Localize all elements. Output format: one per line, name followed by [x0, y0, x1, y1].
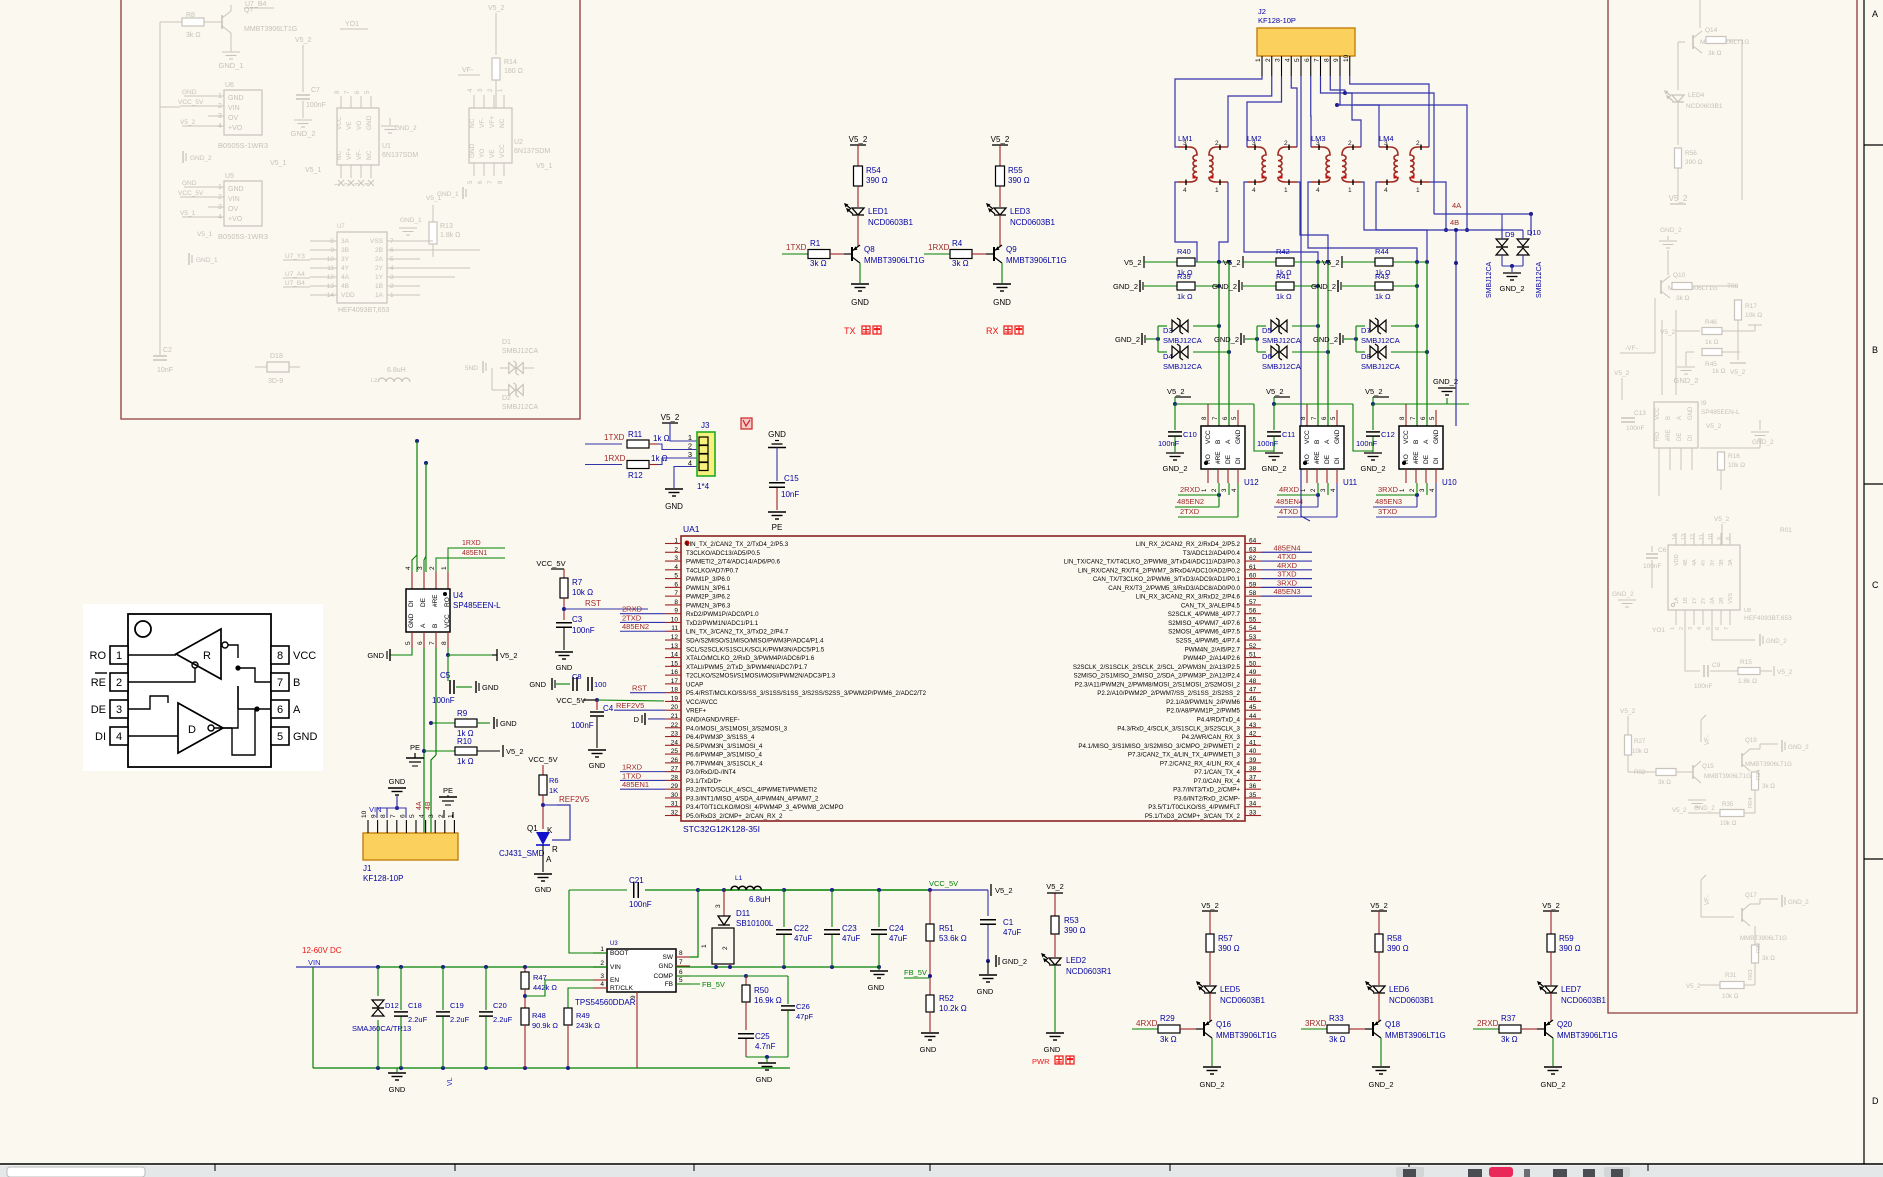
svg-text:10nF: 10nF — [781, 490, 799, 499]
svg-text:LED7: LED7 — [1561, 985, 1582, 994]
svg-text:P6.4/PWM3P_3/S1SS_4: P6.4/PWM3P_3/S1SS_4 — [686, 734, 755, 741]
svg-text:LED2: LED2 — [1066, 956, 1087, 965]
svg-text:PWM1P_3/P6.0: PWM1P_3/P6.0 — [686, 576, 731, 583]
svg-text:V5_2: V5_2 — [1542, 901, 1560, 910]
svg-text:GND_2: GND_2 — [1311, 282, 1336, 291]
svg-text:P3.3/INT1/MISO_4/SDA_4/PWM4N_4: P3.3/INT1/MISO_4/SDA_4/PWM4N_4/PWM7_2 — [686, 795, 819, 802]
svg-text:47pF: 47pF — [796, 1012, 814, 1021]
svg-text:390 Ω: 390 Ω — [1008, 176, 1030, 185]
svg-text:10k Ω: 10k Ω — [1745, 312, 1762, 319]
svg-text:Q10: Q10 — [1673, 272, 1686, 279]
svg-text:2: 2 — [600, 960, 604, 967]
svg-text:390 Ω: 390 Ω — [1387, 944, 1409, 953]
svg-text:18: 18 — [671, 687, 679, 694]
svg-text:SMBJ12CA: SMBJ12CA — [1486, 261, 1493, 298]
svg-text:VCC: VCC — [444, 614, 451, 628]
svg-text:D4: D4 — [1163, 352, 1173, 361]
svg-text:RxD2/PWM1P/ADC0/P1.0: RxD2/PWM1P/ADC0/P1.0 — [686, 611, 759, 618]
svg-text:GND: GND — [851, 298, 869, 307]
svg-text:R33: R33 — [1329, 1014, 1344, 1023]
svg-text:VO: VO — [356, 121, 363, 130]
svg-text:VIN: VIN — [228, 196, 240, 203]
svg-text:D: D — [1872, 1096, 1879, 1106]
svg-text:53.6k Ω: 53.6k Ω — [939, 934, 967, 943]
svg-text:GND_2: GND_2 — [1368, 1080, 1393, 1089]
svg-text:3k Ω: 3k Ω — [1160, 1035, 1177, 1044]
svg-text:FB_5V: FB_5V — [904, 968, 927, 977]
svg-text:V5_2: V5_2 — [488, 5, 504, 12]
svg-text:485EN1: 485EN1 — [462, 550, 487, 557]
svg-text:6: 6 — [399, 814, 406, 818]
svg-text:100nF: 100nF — [629, 900, 652, 909]
svg-text:4A: 4A — [341, 274, 350, 281]
svg-text:2A: 2A — [1710, 597, 1716, 604]
svg-text:R01: R01 — [1780, 527, 1792, 534]
svg-text:41: 41 — [1249, 739, 1257, 746]
svg-text:C5: C5 — [440, 671, 451, 680]
svg-text:C10: C10 — [1183, 430, 1197, 439]
svg-text:4B: 4B — [1450, 218, 1459, 227]
svg-text:VCC_5V: VCC_5V — [556, 696, 585, 705]
svg-text:R4: R4 — [952, 239, 963, 248]
svg-text:390 Ω: 390 Ω — [1218, 944, 1240, 953]
svg-text:47uF: 47uF — [1003, 928, 1021, 937]
svg-text:BOOT: BOOT — [610, 950, 628, 957]
svg-text:V5_2: V5_2 — [1706, 423, 1722, 430]
svg-text:3: 3 — [417, 566, 424, 570]
svg-text:21: 21 — [671, 713, 679, 720]
svg-text:GND: GND — [408, 613, 415, 628]
svg-text:2: 2 — [1348, 140, 1352, 147]
svg-text:R04: R04 — [1748, 797, 1754, 808]
svg-text:4RXD: 4RXD — [1136, 1019, 1158, 1028]
svg-text:GND: GND — [228, 95, 244, 102]
svg-text:1: 1 — [441, 566, 448, 570]
svg-text:UA1: UA1 — [683, 524, 700, 534]
svg-text:T2CLKO/S2MOSI/S1MOSI/MOSI/PWM2: T2CLKO/S2MOSI/S1MOSI/MOSI/PWM2N/ADC3/P1.… — [686, 673, 836, 680]
svg-text:4: 4 — [1697, 627, 1703, 630]
svg-text:C4: C4 — [603, 704, 614, 713]
svg-text:REF2V5: REF2V5 — [559, 795, 590, 804]
svg-text:D7: D7 — [1361, 326, 1371, 335]
svg-text:R48: R48 — [532, 1011, 546, 1020]
svg-text:A: A — [1677, 416, 1683, 420]
svg-text:R54: R54 — [866, 166, 881, 175]
svg-text:U7_Y3: U7_Y3 — [285, 253, 305, 260]
svg-text:37: 37 — [1249, 774, 1257, 781]
svg-text:4: 4 — [600, 981, 604, 988]
svg-text:R: R — [552, 845, 558, 854]
svg-text:1k Ω: 1k Ω — [457, 757, 474, 766]
svg-text:VIN: VIN — [308, 958, 321, 967]
svg-text:S2MISO_4/PWM7_4/P7.6: S2MISO_4/PWM7_4/P7.6 — [1168, 620, 1240, 627]
svg-text:YO: YO — [479, 149, 486, 158]
svg-text:P4.1/MISO_3/S1MISO_3/S2MISO_3/: P4.1/MISO_3/S1MISO_3/S2MISO_3/CMPO_2/PWM… — [1078, 743, 1240, 750]
svg-text:P6.6/PWM4P_3/S1MISO_4: P6.6/PWM4P_3/S1MISO_4 — [686, 752, 763, 759]
svg-text:13: 13 — [1681, 534, 1687, 540]
svg-text:4TXD: 4TXD — [1279, 507, 1299, 516]
svg-text:5: 5 — [674, 573, 678, 580]
svg-text:39: 39 — [1249, 757, 1257, 764]
svg-text:1K: 1K — [549, 786, 558, 795]
svg-text:VCC: VCC — [1655, 407, 1661, 420]
svg-text:MMBT3906LT1G: MMBT3906LT1G — [1557, 1031, 1618, 1040]
svg-text:2B: 2B — [375, 247, 383, 254]
svg-text:2: 2 — [116, 677, 122, 689]
svg-text:VDD: VDD — [341, 292, 355, 299]
svg-text:B: B — [1666, 416, 1672, 420]
svg-text:V5_2: V5_2 — [661, 413, 680, 422]
svg-text:61: 61 — [1249, 564, 1257, 571]
svg-text:VCC_5V: VCC_5V — [536, 559, 565, 568]
svg-text:31: 31 — [671, 801, 679, 808]
svg-text:100nF: 100nF — [1694, 683, 1712, 690]
svg-text:6: 6 — [277, 704, 283, 716]
svg-text:LED6: LED6 — [1389, 985, 1410, 994]
svg-text:P2.3/A11/PWM2N_2/PWM8/MOSI_2/S: P2.3/A11/PWM2N_2/PWM8/MOSI_2/S1MOSI_2/S2… — [1075, 681, 1241, 688]
svg-text:SMBJ12CA: SMBJ12CA — [1163, 362, 1202, 371]
svg-text:GND: GND — [469, 143, 476, 158]
svg-text:R6: R6 — [549, 776, 559, 785]
svg-text:S2SS_4/PWM5_4/P7.4: S2SS_4/PWM5_4/P7.4 — [1176, 638, 1241, 645]
svg-text:V5_2: V5_2 — [1370, 901, 1388, 910]
svg-text:42: 42 — [1249, 731, 1257, 738]
svg-text:RT/CLK: RT/CLK — [610, 985, 634, 992]
svg-text:C2: C2 — [163, 347, 172, 354]
svg-text:GND_2: GND_2 — [1214, 335, 1239, 344]
svg-text:V5_2: V5_2 — [500, 651, 518, 660]
svg-text:5: 5 — [1706, 627, 1712, 630]
svg-text:NCD0603B1: NCD0603B1 — [1686, 103, 1723, 110]
svg-text:RO: RO — [90, 650, 107, 662]
svg-text:100nF: 100nF — [572, 626, 595, 635]
svg-text:9: 9 — [630, 995, 637, 999]
svg-text:1RXD: 1RXD — [604, 454, 626, 463]
svg-text:GND_2: GND_2 — [290, 129, 315, 138]
svg-text:1TXD: 1TXD — [622, 771, 642, 780]
svg-text:R27: R27 — [1634, 738, 1646, 745]
svg-text:V5_2: V5_2 — [991, 135, 1010, 144]
svg-text:GND_1: GND_1 — [218, 61, 243, 70]
svg-text:GND: GND — [1433, 429, 1440, 444]
svg-text:A: A — [1423, 439, 1430, 444]
svg-text:R37: R37 — [1501, 1014, 1516, 1023]
svg-text:SMAJ60CA/TR13: SMAJ60CA/TR13 — [352, 1024, 411, 1033]
svg-text:3k Ω: 3k Ω — [952, 259, 969, 268]
svg-text:2RXD: 2RXD — [1180, 485, 1201, 494]
svg-text:2: 2 — [1679, 627, 1685, 630]
svg-text:U5: U5 — [225, 173, 234, 180]
svg-text:2.2uF: 2.2uF — [408, 1015, 428, 1024]
svg-text:A: A — [420, 623, 427, 628]
svg-text:SP485EEN-L: SP485EEN-L — [1701, 409, 1740, 416]
svg-text:U7: U7 — [337, 224, 345, 230]
svg-text:VCC_5V: VCC_5V — [528, 755, 557, 764]
svg-text:51: 51 — [1249, 652, 1257, 659]
svg-text:1: 1 — [1348, 187, 1352, 194]
svg-text:Q14: Q14 — [1705, 27, 1718, 34]
svg-text:6: 6 — [674, 581, 678, 588]
svg-text:3: 3 — [1275, 58, 1282, 62]
svg-text:P4.3/RxD_4/SCLK_3/S1SCLK_3/S2S: P4.3/RxD_4/SCLK_3/S1SCLK_3/S2SCLK_3 — [1117, 725, 1240, 732]
svg-text:V5_2: V5_2 — [849, 135, 868, 144]
svg-text:R53: R53 — [1064, 916, 1079, 925]
svg-text:10nF: 10nF — [157, 367, 173, 374]
svg-text:27: 27 — [671, 766, 679, 773]
svg-text:3RXD: 3RXD — [1378, 485, 1399, 494]
svg-text:R56: R56 — [1685, 150, 1697, 157]
svg-text:I9: I9 — [1701, 400, 1707, 407]
svg-text:54: 54 — [1249, 625, 1257, 632]
svg-text:U7_A4: U7_A4 — [285, 271, 305, 278]
svg-text:TxD2/PWM1N/ADC1/P1.1: TxD2/PWM1N/ADC1/P1.1 — [686, 620, 759, 627]
svg-text:4: 4 — [1284, 58, 1291, 62]
svg-text:SMBJ12CA: SMBJ12CA — [1361, 336, 1400, 345]
svg-text:NC: NC — [366, 150, 373, 160]
svg-text:10k Ω: 10k Ω — [1728, 462, 1745, 469]
svg-text:C6: C6 — [1658, 547, 1667, 554]
svg-text:C: C — [1872, 580, 1879, 590]
svg-text:V5_2: V5_2 — [1777, 669, 1793, 676]
svg-text:10k Ω: 10k Ω — [1722, 993, 1739, 1000]
svg-text:47uF: 47uF — [842, 934, 860, 943]
svg-text:U12: U12 — [1244, 478, 1259, 487]
svg-text:VF-: VF- — [356, 150, 363, 160]
svg-text:6N137SDM: 6N137SDM — [382, 152, 418, 159]
svg-text:R15: R15 — [1740, 659, 1752, 666]
svg-text:VF-: VF- — [479, 118, 486, 128]
svg-text:PWR: PWR — [1032, 1057, 1050, 1066]
svg-text:2: 2 — [674, 546, 678, 553]
svg-text:V5_2: V5_2 — [1714, 516, 1730, 523]
svg-text:2: 2 — [1416, 140, 1420, 147]
svg-text:GND_2: GND_2 — [190, 155, 212, 162]
svg-text:R16: R16 — [1728, 453, 1740, 460]
svg-text:V5_2: V5_2 — [1614, 370, 1630, 377]
svg-text:VCC/AVCC: VCC/AVCC — [686, 699, 718, 706]
svg-text:P7.0/CAN_RX_4: P7.0/CAN_RX_4 — [1194, 778, 1241, 785]
svg-text:3A: 3A — [1728, 559, 1734, 566]
svg-text:C22: C22 — [794, 924, 809, 933]
svg-text:Q16: Q16 — [1216, 1020, 1232, 1029]
svg-text:VF+: VF+ — [346, 148, 353, 160]
svg-text:R03: R03 — [1748, 969, 1754, 980]
svg-text:NCD0603B1: NCD0603B1 — [1561, 996, 1606, 1005]
svg-text:3A: 3A — [341, 238, 350, 245]
svg-text:5: 5 — [409, 814, 416, 818]
svg-text:R51: R51 — [939, 924, 954, 933]
svg-text:V5_2: V5_2 — [1620, 708, 1636, 715]
svg-text:D10: D10 — [1527, 228, 1541, 237]
svg-text:CJ431_SMD: CJ431_SMD — [499, 849, 545, 858]
svg-text:HEF4093BT,653: HEF4093BT,653 — [1744, 615, 1792, 622]
svg-text:P2.1/A9/PWM1N_2/PWM6: P2.1/A9/PWM1N_2/PWM6 — [1166, 699, 1240, 706]
svg-text:YO1: YO1 — [1652, 627, 1665, 634]
svg-text:R46: R46 — [1705, 319, 1717, 326]
svg-text:7: 7 — [1724, 627, 1730, 630]
svg-text:100nF: 100nF — [571, 721, 594, 730]
svg-text:B: B — [1314, 440, 1321, 444]
svg-text:P6.7/PWM4N_3/S1SCLK_4: P6.7/PWM4N_3/S1SCLK_4 — [686, 760, 763, 767]
svg-text:VF+: VF+ — [489, 116, 496, 128]
svg-text:4TXD: 4TXD — [1277, 552, 1297, 561]
svg-text:DI: DI — [1433, 457, 1440, 464]
svg-text:R8: R8 — [186, 12, 195, 19]
svg-text:R44: R44 — [1375, 247, 1389, 256]
svg-text:VIN: VIN — [369, 805, 382, 814]
svg-text:P3.0/RxD/D-/INT4: P3.0/RxD/D-/INT4 — [686, 769, 736, 776]
svg-text:16: 16 — [671, 669, 679, 676]
svg-text:6.8uH: 6.8uH — [749, 895, 771, 904]
svg-text:P5.1/TxD3_2/CMP+_3/CAN_TX_2: P5.1/TxD3_2/CMP+_3/CAN_TX_2 — [1145, 813, 1241, 820]
svg-text:+VO: +VO — [228, 216, 243, 223]
svg-text:30: 30 — [671, 792, 679, 799]
svg-text:P3.7/INT3/TxD_2/CMP+: P3.7/INT3/TxD_2/CMP+ — [1173, 787, 1240, 794]
svg-text:14: 14 — [1672, 534, 1678, 540]
svg-text:LED4: LED4 — [1688, 92, 1705, 99]
svg-text:V5_1: V5_1 — [536, 163, 552, 170]
svg-text:4Y: 4Y — [1701, 559, 1707, 566]
svg-text:V5_2: V5_2 — [1686, 983, 1701, 990]
svg-text:SDA/S2MISO/S1MISO/MISO/PWM3P/A: SDA/S2MISO/S1MISO/MISO/PWM3P/ADC4/P1.4 — [686, 638, 824, 645]
svg-text:1Y: 1Y — [375, 274, 384, 281]
svg-text:VSS: VSS — [1728, 593, 1734, 604]
svg-text:-VF-: -VF- — [1625, 345, 1638, 352]
svg-text:D9: D9 — [1505, 230, 1515, 239]
svg-text:MMBT3906LT1G: MMBT3906LT1G — [1704, 773, 1751, 780]
svg-text:STC32G12K128-35I: STC32G12K128-35I — [683, 824, 760, 834]
svg-text:XTALO/MCLKO_2/RxD_3/PWM4P/ADC6: XTALO/MCLKO_2/RxD_3/PWM4P/ADC6/P1.6 — [686, 655, 815, 662]
svg-text:VCC: VCC — [1304, 430, 1311, 444]
svg-text:PE: PE — [410, 743, 420, 752]
svg-text:A: A — [1872, 9, 1878, 19]
svg-text:4A: 4A — [416, 801, 423, 810]
svg-text:VF-: VF- — [1704, 895, 1711, 905]
svg-text:390 Ω: 390 Ω — [1064, 926, 1086, 935]
svg-text:10: 10 — [361, 810, 368, 818]
svg-text:GND: GND — [659, 963, 674, 970]
svg-text:GND_2: GND_2 — [1752, 439, 1774, 446]
svg-text:P5.0/RxD3_2/CMP+_2/CAN_RX_2: P5.0/RxD3_2/CMP+_2/CAN_RX_2 — [686, 813, 783, 820]
svg-text:DE: DE — [1225, 454, 1232, 464]
svg-text:R40: R40 — [1177, 247, 1191, 256]
svg-text:47uF: 47uF — [889, 934, 907, 943]
svg-text:Q17: Q17 — [1745, 892, 1757, 899]
svg-text:V5_2: V5_2 — [1167, 387, 1185, 396]
svg-text:28: 28 — [671, 774, 679, 781]
svg-text:46: 46 — [1249, 695, 1257, 702]
svg-text:C21: C21 — [629, 876, 644, 885]
svg-text:V5_2: V5_2 — [295, 37, 311, 44]
svg-text:GND_2: GND_2 — [1313, 335, 1338, 344]
svg-text:D3: D3 — [1163, 326, 1173, 335]
svg-text:D18: D18 — [270, 353, 283, 360]
svg-text:3: 3 — [116, 704, 122, 716]
svg-text:C25: C25 — [755, 1032, 770, 1041]
svg-text:8: 8 — [380, 814, 387, 818]
svg-text:GND: GND — [993, 298, 1011, 307]
svg-text:GND_2: GND_2 — [1261, 464, 1286, 473]
svg-text:1Y: 1Y — [1692, 597, 1698, 604]
svg-text:GND_2: GND_2 — [1199, 1080, 1224, 1089]
svg-text:43: 43 — [1249, 722, 1257, 729]
svg-text:SMBJ12CA: SMBJ12CA — [1361, 362, 1400, 371]
svg-text:R50: R50 — [754, 986, 769, 995]
svg-text:RST: RST — [585, 599, 601, 608]
svg-text:4RXD: 4RXD — [1277, 561, 1298, 570]
svg-text:P7.2/CAN2_RX_4/LIN_RX_4: P7.2/CAN2_RX_4/LIN_RX_4 — [1160, 760, 1241, 767]
svg-text:VCC: VCC — [293, 650, 316, 662]
svg-text:56: 56 — [1249, 608, 1257, 615]
svg-text:3: 3 — [674, 555, 678, 562]
svg-text:VCC: VCC — [336, 116, 343, 130]
svg-text:17: 17 — [671, 678, 679, 685]
svg-text:PWMETI2_2/T4/ADC14/AD6/P0.6: PWMETI2_2/T4/ADC14/AD6/P0.6 — [686, 559, 780, 566]
svg-text:A: A — [1324, 439, 1331, 444]
svg-text:GND: GND — [389, 1085, 406, 1094]
svg-text:LIN_TX_3/CAN2_TX_3/TxD2_2/P4.7: LIN_TX_3/CAN2_TX_3/TxD2_2/P4.7 — [686, 629, 789, 636]
svg-text:GND_2: GND_2 — [1788, 899, 1809, 906]
svg-text:GND: GND — [529, 680, 546, 689]
svg-text:5ND: 5ND — [465, 365, 478, 372]
svg-text:DE: DE — [91, 704, 106, 716]
svg-text:V5_2: V5_2 — [1266, 387, 1284, 396]
svg-text:33: 33 — [1249, 810, 1257, 817]
svg-text:20: 20 — [671, 704, 679, 711]
svg-text:6: 6 — [1715, 627, 1721, 630]
svg-text:SMBJ12CA: SMBJ12CA — [502, 404, 539, 411]
svg-text:100nF: 100nF — [1257, 439, 1279, 448]
svg-text:47uF: 47uF — [794, 934, 812, 943]
svg-text:2TXD: 2TXD — [1180, 507, 1200, 516]
svg-text:2TXD: 2TXD — [622, 613, 642, 622]
svg-text:REF2V5: REF2V5 — [616, 701, 644, 710]
svg-text:C11: C11 — [1282, 430, 1295, 439]
svg-text:U7_B4: U7_B4 — [285, 280, 305, 287]
svg-text:1RXD: 1RXD — [928, 243, 950, 252]
svg-text:D11: D11 — [736, 909, 751, 918]
svg-text:4A: 4A — [1452, 201, 1461, 210]
svg-text:485EN3: 485EN3 — [1375, 497, 1402, 506]
svg-text:485EN4: 485EN4 — [1276, 497, 1303, 506]
svg-text:V5_2: V5_2 — [1201, 901, 1219, 910]
svg-text:V5_2: V5_2 — [1672, 807, 1687, 814]
svg-text:2: 2 — [1265, 58, 1272, 62]
svg-text:36: 36 — [1249, 783, 1257, 790]
svg-text:U1: U1 — [382, 143, 391, 150]
svg-text:R52: R52 — [939, 994, 954, 1003]
svg-text:B: B — [1413, 440, 1420, 444]
svg-text:7: 7 — [679, 959, 683, 966]
svg-text:MMBT3906LT1G: MMBT3906LT1G — [864, 256, 925, 265]
svg-text:DI: DI — [1688, 435, 1694, 441]
svg-text:V5_2: V5_2 — [1365, 387, 1383, 396]
svg-text:55: 55 — [1249, 616, 1257, 623]
svg-text:3k Ω: 3k Ω — [1501, 1035, 1518, 1044]
svg-text:1RXD: 1RXD — [622, 763, 643, 772]
svg-text:100nF: 100nF — [1158, 439, 1180, 448]
svg-text:GND: GND — [1044, 1045, 1061, 1054]
svg-text:LM2: LM2 — [1247, 134, 1262, 143]
svg-text:C19: C19 — [450, 1001, 464, 1010]
svg-text:1k Ω: 1k Ω — [653, 434, 670, 443]
svg-text:1: 1 — [1255, 58, 1262, 62]
svg-text:P2.0/A8/PWM1P_2/PWM5: P2.0/A8/PWM1P_2/PWM5 — [1166, 708, 1240, 715]
svg-text:LED5: LED5 — [1220, 985, 1241, 994]
svg-text:L2: L2 — [371, 378, 377, 384]
svg-text:GND_2: GND_2 — [1115, 335, 1140, 344]
svg-text:3RXD: 3RXD — [1277, 578, 1298, 587]
